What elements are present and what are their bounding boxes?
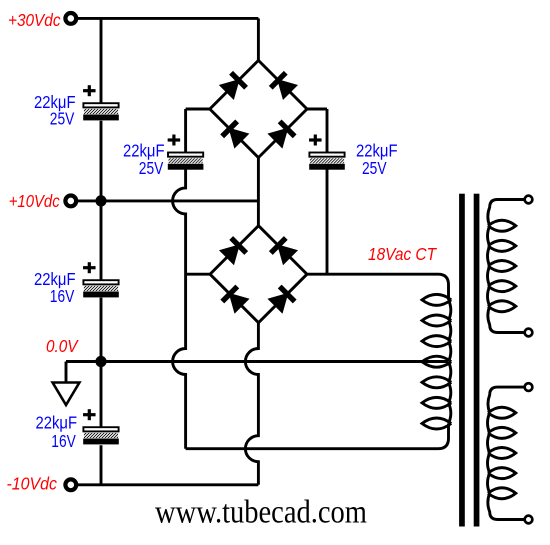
svg-text:16V: 16V bbox=[50, 286, 75, 306]
svg-text:0.0V: 0.0V bbox=[46, 336, 79, 356]
svg-text:-10Vdc: -10Vdc bbox=[7, 473, 58, 493]
svg-text:22kμF: 22kμF bbox=[36, 413, 78, 433]
svg-text:+10Vdc: +10Vdc bbox=[9, 191, 60, 211]
svg-text:+30Vdc: +30Vdc bbox=[8, 10, 61, 30]
svg-text:16V: 16V bbox=[51, 431, 76, 451]
svg-text:25V: 25V bbox=[362, 158, 387, 178]
svg-text:www.tubecad.com: www.tubecad.com bbox=[155, 494, 367, 530]
svg-text:18Vac CT: 18Vac CT bbox=[368, 244, 437, 264]
svg-text:25V: 25V bbox=[50, 109, 75, 129]
svg-text:25V: 25V bbox=[139, 158, 164, 178]
